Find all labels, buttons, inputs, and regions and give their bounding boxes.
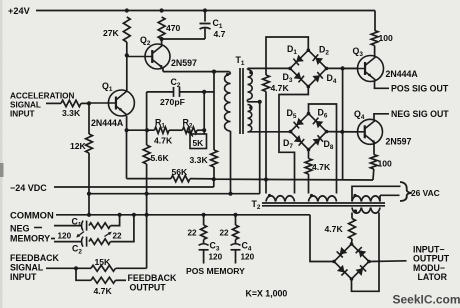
resistor 4.7K (bridge2) (305, 159, 331, 175)
svg-text:POS SIG OUT: POS SIG OUT (391, 84, 449, 94)
junction rail / bridge1 top branch (264, 177, 268, 181)
diode D1 (296, 55, 304, 62)
transistor Q1 2N444A (89, 90, 134, 116)
phase dot T2 winding4 (354, 209, 357, 212)
svg-text:27K: 27K (103, 28, 120, 38)
svg-text:ACCELERATION: ACCELERATION (10, 92, 75, 101)
phase dot T1 secondary top (249, 71, 252, 74)
svg-text:120: 120 (209, 253, 223, 262)
svg-text:5K: 5K (193, 138, 204, 148)
capacitor C1 4.7 (200, 11, 226, 40)
wire T1 secondary top to bridge D1 left vertex (248, 67, 291, 69)
transformer T2 core (262, 203, 385, 206)
resistor 22 (pos memory C4) (220, 215, 239, 240)
resistor 27K (103, 17, 130, 42)
resistor 15K (91, 257, 116, 271)
svg-text:OUTPUT: OUTPUT (413, 254, 450, 264)
svg-text:SIGNAL: SIGNAL (10, 263, 44, 273)
wire modulator right vertex to label (369, 260, 407, 263)
junction rail B / 5.6K (145, 192, 149, 196)
diode D4 (312, 75, 320, 82)
capacitor C2 270pF with box wiring (147, 77, 214, 130)
modulator diode upper-left (340, 247, 348, 255)
junction R2 right / C2 box (202, 128, 206, 132)
junction top rail / 27K (125, 8, 129, 12)
transistor Q3 2N444A (343, 56, 384, 82)
resistor 3.3K input (61, 100, 81, 118)
wire R2 to right node (197, 129, 204, 131)
wire 3.3K branch vertical (213, 72, 215, 150)
svg-text:COMMON: COMMON (10, 210, 54, 221)
svg-text:MEMORY: MEMORY (10, 234, 50, 244)
wire feedback input (46, 267, 91, 269)
svg-text:FEEDBACK: FEEDBACK (128, 273, 178, 283)
svg-text:22: 22 (220, 229, 230, 238)
wire T1 center tap (248, 100, 260, 102)
svg-text:100: 100 (379, 33, 394, 43)
wire bridge2 bottom to 4.7K (308, 150, 310, 159)
wire 4.7K to T2 winding2 left (308, 174, 310, 194)
junction rail B / T1 primary (228, 192, 232, 196)
svg-text:LATOR: LATOR (418, 272, 448, 282)
svg-text:2N597: 2N597 (171, 58, 197, 68)
svg-text:120: 120 (58, 232, 72, 241)
wire bridge1 top loop to 4.7K (266, 37, 308, 75)
capacitor C3 120 (199, 240, 223, 264)
wire bridge2 top loop to T2 winding2 right (309, 104, 337, 194)
junction T1 center tap (258, 100, 262, 104)
junction C2 box top right (202, 90, 206, 94)
diode D5 (296, 118, 304, 125)
junction COMMON/neg mem 2 (132, 213, 136, 217)
wire +24V rail (36, 11, 375, 31)
resistor R2 5K pot (183, 118, 198, 134)
resistor 4.7K (T1 side) (263, 75, 290, 93)
resistor 100 (Q3 collector) (371, 30, 393, 56)
label FEEDBACK OUTPUT (128, 273, 178, 293)
wire 4.7K stub to feedback output (116, 279, 127, 281)
wire 5.6K bottom down to common (146, 164, 148, 215)
wire Q3 base branch down to rail (342, 68, 344, 179)
resistor 56K (171, 167, 190, 182)
transformer T1 secondary bottom winding (248, 105, 252, 133)
svg-text:5.6K: 5.6K (151, 153, 170, 163)
wire feedback rail 56K junction to 100 ohm Q4 (214, 178, 373, 181)
transformer T2 winding 2 (309, 196, 337, 202)
junction COMMON/neg mem 1 (118, 213, 122, 217)
svg-text:3.3K: 3.3K (190, 155, 209, 165)
wire T1 secondary bottom to bridge D5 left vertex (248, 131, 291, 133)
junction COMMON/15K branch (145, 213, 149, 217)
junction feedback input split (74, 266, 78, 270)
diode D8 (313, 139, 321, 146)
svg-text:2N444A: 2N444A (386, 69, 419, 79)
svg-text:4.7K: 4.7K (312, 162, 331, 172)
svg-text:2N444A: 2N444A (91, 118, 124, 128)
svg-text:−24 VDC: −24 VDC (10, 183, 47, 193)
modulator diode bridge (334, 244, 369, 279)
junction COMMON/pos mem C4 (233, 213, 237, 217)
resistor 12K (70, 103, 92, 153)
transistor Q2 2N597 (127, 39, 170, 69)
modulator diode lower-right (356, 268, 364, 276)
wire bridge1 bottom to T2 winding1 right (279, 87, 308, 194)
resistor 22 (neg memory bottom) (89, 215, 134, 245)
potentiometer 5K box and wiper arrow (187, 130, 207, 149)
junction COMMON/pos mem C3 (202, 213, 206, 217)
svg-text:NEG: NEG (10, 224, 30, 234)
transformer T1 primary winding (225, 72, 231, 194)
svg-text:NEG SIG OUT: NEG SIG OUT (391, 109, 449, 119)
svg-text:+24V: +24V (8, 6, 31, 16)
resistor 100 (Q4 emitter) (370, 144, 392, 181)
phase dot T1 secondary bottom (249, 106, 252, 109)
wire 3.3K bottom to 56K junction (213, 167, 215, 179)
wire 15K to memory vertical (116, 215, 147, 268)
wire Q4 collector to NEG SIG OUT (374, 114, 389, 120)
transistor Q4 2N597 (337, 119, 383, 144)
svg-text:4.7K: 4.7K (271, 83, 290, 93)
junction Q2 base node (125, 53, 129, 57)
svg-text:4.7K: 4.7K (94, 286, 113, 296)
capacitor C2 (neg memory) (54, 237, 87, 256)
svg-text:SeekIC.com: SeekIC.com (393, 293, 460, 307)
transformer T2 winding 3 (26 VAC) (352, 186, 401, 201)
diode D7 (294, 135, 302, 142)
wire bridge2 right to Q4 base (327, 131, 358, 133)
resistor 4.7K (modulator) (325, 219, 356, 240)
watermark SeekIC.com (393, 293, 460, 307)
diode D6 (316, 121, 324, 128)
wire Q1 emitter to R1 node (126, 116, 128, 130)
junction rail B / 12K (87, 192, 91, 196)
modulator diode upper-right (359, 250, 367, 258)
wire Q2 emitter run to T1 primary top (163, 68, 230, 71)
wire to 4.7K feedback (76, 268, 91, 280)
transformer T1 core (240, 68, 243, 134)
capacitor C4 120 (231, 240, 255, 264)
svg-text:120: 120 (241, 253, 255, 262)
wire R1 to R2 (169, 129, 183, 131)
diode D3 (294, 72, 302, 79)
capacitor C1 (neg memory) (54, 217, 87, 231)
junction 56K / 3.3K / rail (212, 177, 216, 181)
svg-text:270pF: 270pF (160, 97, 185, 107)
resistor 22 (pos memory C3) (188, 215, 207, 240)
wire 4.7K bottom to rail and T2 winding1 left (265, 92, 267, 194)
wire 56K to junction (190, 178, 214, 180)
wire C1 bottom to 470 bottom (162, 38, 205, 40)
resistor 470 (158, 17, 180, 39)
label NEG MEMORY (10, 224, 55, 244)
svg-text:K=X 1,000: K=X 1,000 (246, 289, 288, 299)
resistor 5.6K (143, 130, 169, 164)
wire T2 winding4 left to 4.7K modulator (351, 213, 353, 219)
svg-text:4.7K: 4.7K (325, 224, 344, 234)
resistor 4.7K feedback (91, 277, 116, 296)
modulator diode lower-left (337, 265, 345, 273)
svg-text:2N597: 2N597 (386, 137, 412, 147)
wire bridge1 right to Q3 base (327, 67, 358, 69)
wire 3.3K to Q1 base (81, 102, 89, 104)
label 22 (neg memory) with arrow (105, 232, 123, 241)
svg-text:470: 470 (166, 23, 181, 33)
wire accel input (46, 102, 61, 104)
svg-text:100: 100 (378, 159, 393, 169)
wire -24VDC rail (54, 186, 214, 188)
svg-text:15K: 15K (95, 257, 112, 267)
junction top rail / C1 (203, 8, 207, 12)
wire Q2 base to Q1 collector (126, 55, 128, 91)
svg-text:OUTPUT: OUTPUT (130, 283, 167, 293)
junction Q2 emitter line / 3.3K branch (212, 70, 216, 74)
wire modulator bottom loop to winding4 right (352, 213, 380, 292)
svg-text:4.7: 4.7 (214, 29, 226, 39)
junction 470/C1/Q2 collector (160, 37, 164, 41)
junction Q1 base / 12K (87, 101, 91, 105)
svg-text:POS MEMORY: POS MEMORY (186, 266, 245, 276)
svg-text:22: 22 (113, 232, 123, 241)
transformer T1 secondary top winding (248, 68, 253, 99)
diode D2 (315, 58, 323, 65)
svg-text:12K: 12K (70, 141, 87, 151)
wire rail B (-24 return) (89, 193, 260, 195)
diode bridge D5-D8 (291, 114, 327, 150)
wire 27K to Q2 base (126, 42, 128, 55)
arrow to caps (76, 232, 84, 238)
wire 12K to common rails (88, 153, 90, 215)
junction Q3 base branch (341, 66, 345, 70)
junction top rail / 470 (160, 8, 164, 12)
junction R1 left / 5.6K (145, 128, 149, 132)
resistor 3.3K (feedback) (190, 150, 218, 167)
svg-text:56K: 56K (172, 167, 189, 177)
diode bridge D1-D4 (290, 50, 326, 86)
svg-text:3.3K: 3.3K (62, 108, 81, 118)
svg-text:INPUT: INPUT (10, 272, 37, 282)
svg-text:26 VAC: 26 VAC (411, 188, 440, 198)
wire drop to -24VDC rail end (213, 179, 215, 187)
wire 4.7K to modulator bridge top (351, 239, 354, 244)
junction Q1 emitter node (125, 128, 129, 132)
junction COMMON/12K branch (87, 213, 91, 217)
svg-text:INPUT: INPUT (10, 110, 35, 119)
resistor 22 (neg memory top) (89, 215, 120, 229)
wire COMMON rail (56, 214, 310, 216)
phase dot T2 winding1 (268, 194, 271, 197)
phase dot T1 primary (226, 73, 229, 76)
label INPUT-OUTPUT MODULATOR (413, 245, 450, 283)
svg-text:4.7K: 4.7K (154, 136, 173, 146)
svg-text:FEEDBACK: FEEDBACK (10, 253, 60, 263)
phase dot T2 winding2 (310, 194, 313, 197)
label FEEDBACK SIGNAL INPUT (10, 253, 60, 282)
svg-text:SIGNAL: SIGNAL (10, 101, 41, 110)
wire R1 row (127, 129, 155, 131)
transformer T2 winding 1 (266, 196, 295, 202)
svg-text:22: 22 (188, 229, 198, 238)
label ACCELERATION SIGNAL INPUT (10, 92, 75, 119)
junction Q3-base vertical / Q4 base wire (340, 130, 344, 134)
transformer T2 secondary winding 4 (352, 208, 380, 214)
wire center tap to rail B (259, 102, 261, 194)
resistor R1 4.7K (154, 118, 173, 146)
wire Q3 emitter to POS SIG OUT (375, 81, 390, 88)
brace 26 VAC (400, 182, 412, 201)
wire modulator left vertex to COMMON (310, 215, 334, 262)
wire 56K run from Q1 emitter node (127, 130, 172, 178)
phase dot T2 winding3 (353, 194, 356, 197)
